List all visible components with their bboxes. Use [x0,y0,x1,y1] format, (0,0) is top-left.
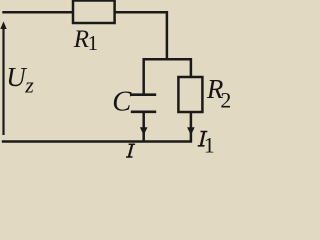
svg-text:z: z [24,73,34,98]
wire: top rail from left terminal to top-right corner, down to parallel node [2,12,167,59]
svg-text:1: 1 [88,31,99,55]
svg-text:U: U [6,62,27,92]
svg-text:1: 1 [204,133,215,158]
wire below R2 down to bottom rail [190,112,193,142]
label I [126,144,135,158]
current arrow I on capacitor branch [140,127,148,135]
label R1 [73,26,98,55]
wire: parallel-branch bar with stubs down to C and R2 [144,59,191,94]
resistor R1 [73,1,115,24]
label Uz [6,62,34,98]
label R2 [206,74,232,113]
svg-text:2: 2 [220,88,230,113]
wire below C down to bottom rail [142,113,145,142]
svg-text:C: C [112,87,132,118]
wire: bottom rail [2,140,192,143]
current arrow I1 on R2 branch [187,127,195,135]
resistor R2 [178,77,202,112]
label I1 [198,131,215,158]
capacitor C [131,95,156,112]
voltage arrow Uz (points up) [0,21,6,135]
